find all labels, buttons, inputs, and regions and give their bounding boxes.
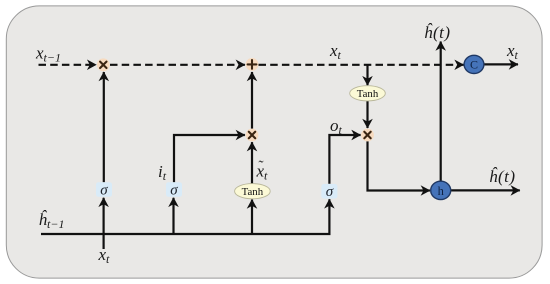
wire h-node up to top output — [440, 42, 442, 182]
multiply node 2 — [246, 129, 259, 142]
wire h_{t-1} line with turn up to sigma3 — [41, 199, 329, 234]
wire sigma2 elbow to x-node2 — [174, 135, 245, 182]
wire dashed c-line segment 1 — [39, 64, 97, 66]
svg-text:ĥ(t): ĥ(t) — [424, 23, 451, 42]
multiply node 3 — [361, 129, 374, 142]
svg-text:σ: σ — [326, 184, 334, 200]
wire x_t input up to sigma1 — [102, 198, 104, 249]
svg-text:Tanh: Tanh — [242, 186, 264, 198]
sigma box 3 — [321, 184, 337, 200]
wire dashed c-line segment 2 — [110, 64, 245, 66]
wire dashed c-line segment 3 — [259, 64, 464, 66]
wire x-node3 elbow to h-node — [368, 141, 430, 190]
sigma box 1 — [96, 182, 112, 198]
svg-text:σ: σ — [170, 182, 178, 198]
wire tanh-b to x-node2 — [251, 142, 253, 183]
wire h-node right output — [451, 189, 520, 191]
multiply node 1 — [97, 58, 110, 71]
svg-text:Tanh: Tanh — [357, 88, 379, 100]
plus node — [246, 58, 259, 71]
h node — [431, 181, 451, 199]
wire up to sigma2 — [172, 198, 174, 234]
C node — [464, 55, 484, 73]
svg-text:σ: σ — [100, 182, 108, 198]
svg-text:h: h — [438, 184, 445, 198]
svg-text:˜: ˜ — [259, 159, 264, 175]
svg-text:ĥ(t): ĥ(t) — [489, 167, 516, 186]
tanh ellipse top — [350, 86, 386, 101]
wire C-node right output — [484, 63, 518, 65]
wire sigma1 to x-node1 — [103, 72, 105, 182]
tanh ellipse bottom — [235, 184, 271, 199]
wire dashed-line junction down to tanh-t — [366, 65, 368, 85]
wire sigma3 elbow to x-node3 — [329, 135, 360, 184]
wire x-node2 to plus-node — [251, 72, 253, 129]
wire tanh-t to x-node3 — [366, 101, 368, 128]
svg-text:C: C — [470, 58, 478, 72]
sigma box 2 — [166, 182, 182, 198]
wire up to tanh bottom — [251, 200, 253, 235]
